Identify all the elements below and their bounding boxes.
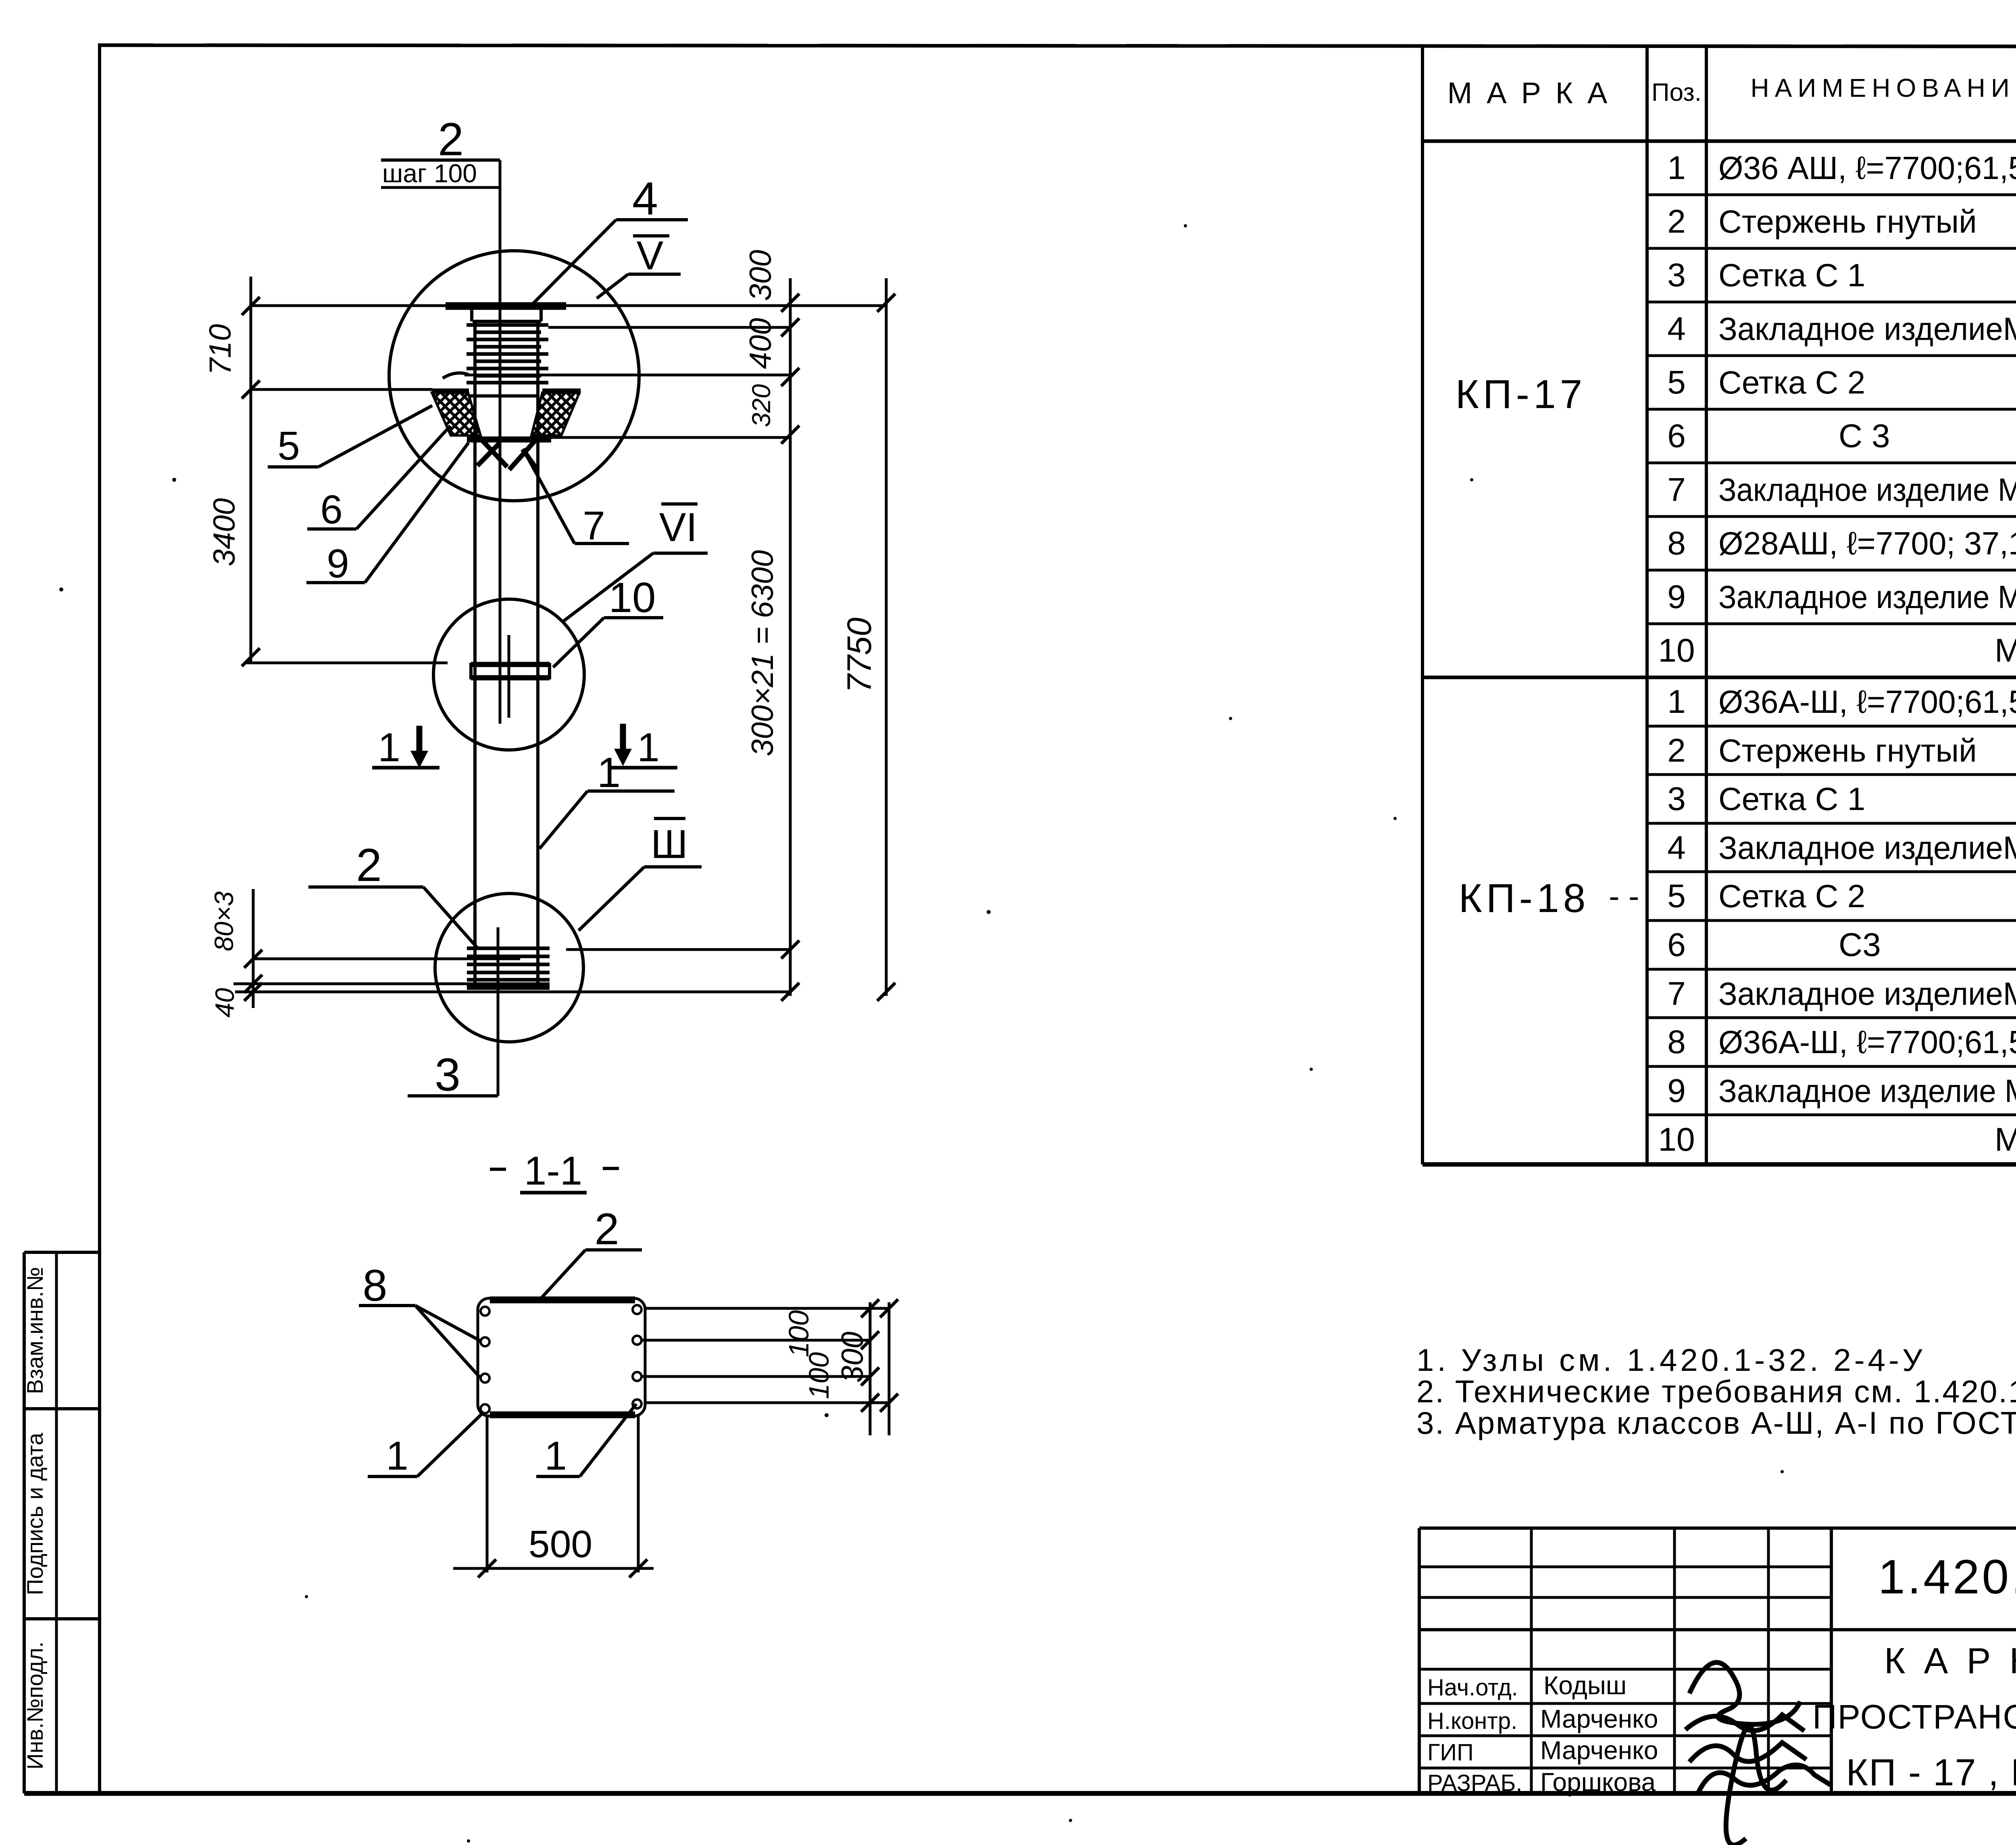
svg-text:1: 1 — [597, 749, 621, 796]
svg-text:1: 1 — [544, 1433, 567, 1478]
svg-text:КП-17: КП-17 — [1456, 372, 1587, 417]
svg-text:1: 1 — [378, 725, 400, 770]
svg-text:2: 2 — [1667, 732, 1686, 769]
svg-text:3: 3 — [1667, 257, 1686, 294]
svg-text:Закладное изделиеМН5: Закладное изделиеМН5 — [1718, 830, 2016, 866]
svg-text:Сетка С 1: Сетка С 1 — [1718, 257, 1865, 293]
svg-text:6: 6 — [1667, 927, 1686, 963]
svg-text:320: 320 — [747, 384, 776, 427]
svg-text:500: 500 — [529, 1523, 593, 1566]
svg-text:3: 3 — [435, 1049, 460, 1101]
svg-text:Ø36А-Ш, ℓ=7700;61,52кг: Ø36А-Ш, ℓ=7700;61,52кг — [1718, 1024, 2016, 1060]
svg-text:400: 400 — [744, 318, 778, 369]
svg-text:5: 5 — [1667, 878, 1686, 914]
svg-text:7: 7 — [583, 503, 605, 548]
svg-text:300: 300 — [744, 250, 778, 301]
svg-text:МН6: МН6 — [1995, 1121, 2016, 1158]
svg-text:2: 2 — [356, 839, 382, 891]
svg-text:1.420.1-32 .: 1.420.1-32 . — [1878, 1550, 2016, 1604]
svg-text:шаг 100: шаг 100 — [382, 159, 477, 188]
svg-text:300: 300 — [835, 1332, 870, 1383]
svg-text:VI: VI — [659, 505, 697, 550]
svg-text:МН6: МН6 — [1995, 632, 2016, 669]
svg-text:5: 5 — [1667, 364, 1686, 401]
svg-text:Горшкова: Горшкова — [1540, 1768, 1656, 1797]
svg-text:2: 2 — [594, 1204, 619, 1254]
svg-text:РАЗРАБ.: РАЗРАБ. — [1427, 1770, 1522, 1796]
svg-text:3. Арматура классов А-Ш, А-: 3. Арматура классов А-Ш, А-I по ГОСТ 578… — [1416, 1405, 2016, 1441]
svg-text:1: 1 — [637, 725, 660, 770]
svg-text:1. Узлы см. 1.420.1-32. 2-4-: 1. Узлы см. 1.420.1-32. 2-4-У — [1416, 1342, 1926, 1378]
svg-text:Стержень гнутый: Стержень гнутый — [1718, 733, 1977, 768]
svg-text:6: 6 — [1667, 418, 1686, 454]
svg-text:8: 8 — [1667, 525, 1686, 562]
svg-text:100: 100 — [783, 1310, 814, 1358]
svg-text:Стержень гнутый: Стержень гнутый — [1718, 204, 1977, 239]
svg-text:V: V — [637, 233, 664, 278]
svg-text:Закладное изделиеМН3: Закладное изделиеМН3 — [1718, 976, 2016, 1012]
svg-text:10: 10 — [1658, 1121, 1695, 1158]
svg-text:3: 3 — [1667, 781, 1686, 817]
svg-text:1: 1 — [1667, 150, 1686, 186]
svg-text:С 3: С 3 — [1839, 418, 1890, 454]
svg-text:4: 4 — [1667, 829, 1686, 866]
svg-text:8: 8 — [1667, 1024, 1686, 1060]
svg-text:8: 8 — [362, 1261, 387, 1310]
svg-text:9: 9 — [1667, 1072, 1686, 1109]
svg-text:1: 1 — [1667, 683, 1686, 720]
svg-text:Кодыш: Кодыш — [1543, 1671, 1627, 1700]
svg-text:2: 2 — [438, 114, 464, 165]
svg-text:2: 2 — [1667, 203, 1686, 240]
svg-text:2. Технические требования с: 2. Технические требования см. 1.420.1-32… — [1416, 1374, 2016, 1409]
svg-text:710: 710 — [203, 324, 237, 375]
svg-text:100: 100 — [803, 1352, 835, 1399]
svg-text:300×21 = 6300: 300×21 = 6300 — [746, 550, 780, 756]
svg-text:10: 10 — [609, 574, 656, 621]
svg-text:НАИМЕНОВАНИЕ: НАИМЕНОВАНИЕ — [1750, 73, 2016, 102]
svg-text:4: 4 — [1667, 310, 1686, 347]
svg-text:Закладное изделие МН 4: Закладное изделие МН 4 — [1718, 579, 2016, 615]
svg-text:Сетка С 1: Сетка С 1 — [1718, 781, 1865, 817]
svg-text:С3: С3 — [1839, 927, 1881, 963]
svg-text:Марченко: Марченко — [1540, 1704, 1658, 1733]
svg-text:Ø28АШ, ℓ=7700; 37,19кг: Ø28АШ, ℓ=7700; 37,19кг — [1718, 525, 2016, 561]
svg-text:Сетка С 2: Сетка С 2 — [1718, 878, 1865, 914]
svg-text:7: 7 — [1667, 471, 1686, 508]
svg-text:Нач.отд.: Нач.отд. — [1427, 1674, 1518, 1701]
svg-text:Инв.№подл.: Инв.№подл. — [22, 1641, 48, 1770]
svg-text:9: 9 — [327, 541, 349, 586]
svg-text:Поз.: Поз. — [1652, 79, 1702, 106]
svg-text:1: 1 — [386, 1433, 408, 1478]
svg-text:Ø36А-Ш, ℓ=7700;61,52кг: Ø36А-Ш, ℓ=7700;61,52кг — [1718, 684, 2016, 720]
svg-text:- -: - - — [1609, 878, 1639, 914]
svg-text:7: 7 — [1667, 975, 1686, 1012]
svg-text:Ш: Ш — [651, 822, 688, 867]
svg-text:9: 9 — [1667, 579, 1686, 615]
svg-text:3400: 3400 — [207, 498, 242, 566]
svg-text:4: 4 — [632, 173, 658, 225]
svg-text:7750: 7750 — [840, 617, 878, 693]
svg-text:Закладное изделие МН4: Закладное изделие МН4 — [1718, 1073, 2016, 1109]
svg-text:5: 5 — [277, 423, 300, 469]
svg-text:6: 6 — [320, 487, 343, 532]
svg-text:Н.контр.: Н.контр. — [1427, 1708, 1517, 1734]
svg-text:КП - 17 , КП - 18: КП - 17 , КП - 18 — [1846, 1751, 2016, 1793]
svg-text:Ø36 АШ, ℓ=7700;61,52кг: Ø36 АШ, ℓ=7700;61,52кг — [1718, 150, 2016, 186]
svg-text:1-1: 1-1 — [524, 1148, 583, 1193]
svg-text:КАРКАС: КАРКАС — [1884, 1641, 2016, 1681]
svg-text:Подпись и дата: Подпись и дата — [22, 1433, 48, 1595]
svg-text:ПРОСТРАНСТВЕННЫЙ: ПРОСТРАНСТВЕННЫЙ — [1812, 1698, 2016, 1736]
svg-text:80×3: 80×3 — [209, 891, 239, 951]
svg-text:Марченко: Марченко — [1540, 1736, 1658, 1765]
svg-text:10: 10 — [1658, 632, 1695, 669]
svg-text:ГИП: ГИП — [1427, 1739, 1474, 1766]
svg-text:КП-18: КП-18 — [1459, 876, 1590, 921]
svg-text:Сетка С 2: Сетка С 2 — [1718, 364, 1865, 400]
svg-text:Закладное изделие МН 3: Закладное изделие МН 3 — [1718, 472, 2016, 508]
svg-text:40: 40 — [210, 988, 240, 1018]
svg-text:МАРКА: МАРКА — [1447, 76, 1622, 110]
svg-text:Закладное изделиеМН5: Закладное изделиеМН5 — [1718, 311, 2016, 347]
svg-text:Взам.инв.№: Взам.инв.№ — [22, 1267, 48, 1394]
